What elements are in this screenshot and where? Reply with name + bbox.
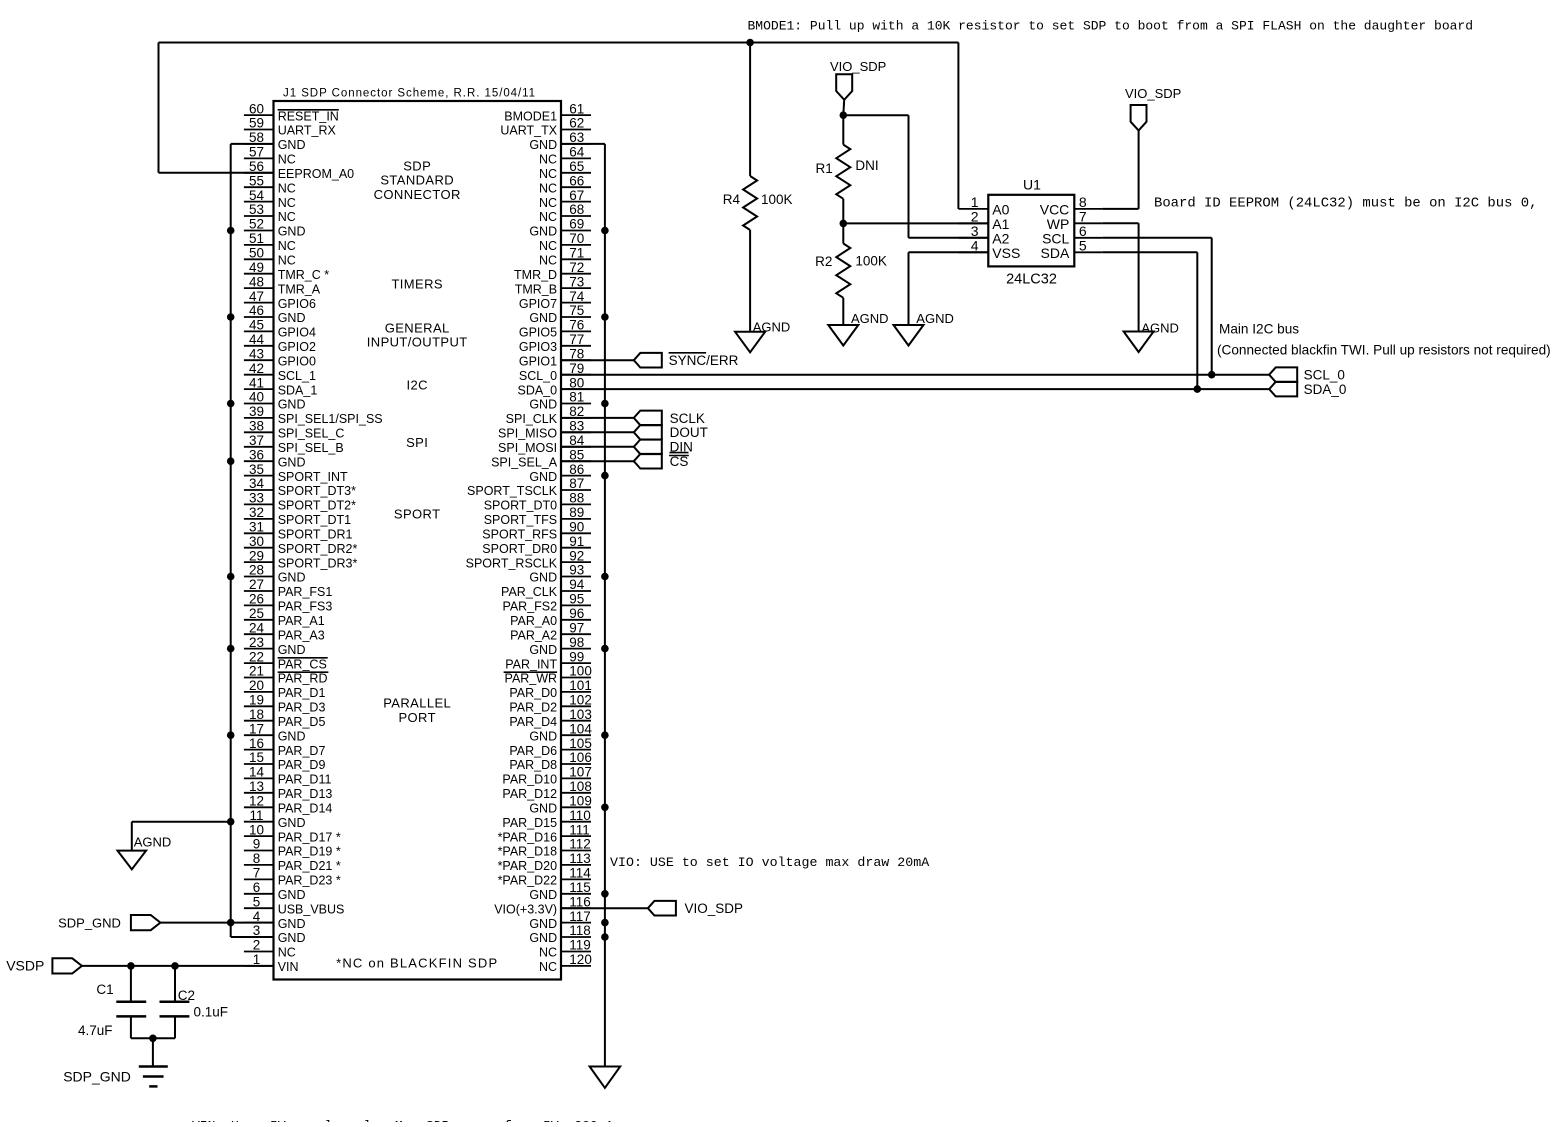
svg-text:NC: NC bbox=[278, 210, 296, 224]
label R1 bbox=[816, 161, 833, 176]
svg-text:NC: NC bbox=[539, 181, 557, 195]
J1 pin 6 GND bbox=[244, 880, 306, 902]
svg-text:43: 43 bbox=[249, 346, 264, 361]
svg-text:PAR_D7: PAR_D7 bbox=[278, 744, 326, 758]
J1 pin 100 PAR_WR bbox=[504, 664, 592, 686]
J1 pin 115 GND bbox=[529, 880, 591, 902]
svg-text:GND: GND bbox=[529, 225, 557, 239]
svg-text:67: 67 bbox=[569, 188, 584, 203]
note Connected blackfin TWI bbox=[1217, 343, 1551, 358]
svg-text:100K: 100K bbox=[761, 192, 793, 207]
junction: top net at R4 bbox=[746, 39, 754, 47]
svg-text:6: 6 bbox=[253, 880, 261, 895]
J1 pin 87 SPORT_TSCLK bbox=[467, 476, 591, 498]
svg-text:VIO_SDP: VIO_SDP bbox=[830, 59, 886, 74]
wire: EEPROM_A0 (pin 56) left and up to top net bbox=[159, 43, 274, 173]
J1 pin 24 PAR_A3 bbox=[244, 620, 325, 642]
svg-text:UART_RX: UART_RX bbox=[278, 124, 337, 138]
svg-text:11: 11 bbox=[249, 808, 263, 823]
svg-text:AGND: AGND bbox=[1141, 321, 1179, 336]
wire: VIO_SDP down to junction bbox=[842, 100, 845, 115]
svg-text:4: 4 bbox=[253, 909, 261, 924]
J1 pin 95 PAR_FS2 bbox=[502, 592, 591, 614]
svg-text:110: 110 bbox=[569, 808, 591, 823]
svg-text:GND: GND bbox=[529, 802, 557, 816]
J1 section label GENERAL bbox=[385, 320, 450, 335]
svg-text:108: 108 bbox=[569, 779, 592, 794]
svg-text:19: 19 bbox=[249, 693, 264, 708]
J1 pin 73 TMR_B bbox=[515, 274, 591, 296]
svg-text:GND: GND bbox=[278, 455, 306, 469]
svg-text:PAR_D10: PAR_D10 bbox=[502, 773, 557, 787]
J1 section label SPORT bbox=[394, 506, 441, 521]
J1 pin 117 GND bbox=[529, 909, 591, 931]
J1 pin 1 VIN bbox=[244, 952, 299, 974]
svg-text:NC: NC bbox=[539, 239, 557, 253]
J1 pin 4 GND bbox=[244, 909, 306, 931]
svg-text:106: 106 bbox=[569, 750, 592, 765]
svg-text:91: 91 bbox=[569, 534, 584, 549]
wire: VSDP to pin 1 VIN bbox=[82, 965, 274, 967]
port SYNC/ERR (SYNC overlined) bbox=[634, 353, 739, 368]
svg-text:PAR_A3: PAR_A3 bbox=[278, 628, 325, 642]
J1 pin 76 GPIO5 bbox=[519, 318, 591, 340]
J1 pin 25 PAR_A1 bbox=[244, 606, 325, 628]
svg-text:5: 5 bbox=[1079, 238, 1087, 254]
svg-text:GND: GND bbox=[278, 571, 306, 585]
svg-text:81: 81 bbox=[569, 390, 584, 405]
svg-text:STANDARD: STANDARD bbox=[380, 173, 454, 188]
svg-text:VSS: VSS bbox=[992, 245, 1020, 261]
junction: left bus at pin 36 bbox=[227, 457, 235, 465]
J1 pin 29 SPORT_DR3* bbox=[244, 548, 358, 570]
svg-text:SPI_SEL_A: SPI_SEL_A bbox=[491, 455, 558, 469]
svg-text:PAR_D12: PAR_D12 bbox=[502, 787, 557, 801]
svg-text:63: 63 bbox=[569, 130, 584, 145]
note VIN (clipped at bottom edge) bbox=[192, 1118, 645, 1127]
IC U1 24LC32 EEPROM body bbox=[988, 195, 1074, 267]
J1 pin 52 GND bbox=[244, 217, 306, 239]
svg-text:SDA: SDA bbox=[1041, 245, 1070, 261]
label R2 bbox=[815, 254, 832, 269]
svg-text:GPIO3: GPIO3 bbox=[519, 340, 557, 354]
junction: left bus at pin 52 bbox=[227, 227, 235, 235]
junction: left bus at pin 17 bbox=[227, 731, 235, 739]
svg-text:GND: GND bbox=[278, 729, 306, 743]
svg-text:60: 60 bbox=[249, 101, 264, 116]
junction: right bus at pin 93 bbox=[601, 573, 609, 581]
svg-text:118: 118 bbox=[569, 923, 591, 938]
junction: VIO_SDP / R1 / A2 branch bbox=[840, 111, 848, 119]
svg-text:18: 18 bbox=[249, 707, 264, 722]
svg-text:65: 65 bbox=[569, 159, 584, 174]
svg-text:SPI_SEL_B: SPI_SEL_B bbox=[278, 441, 344, 455]
power symbol VIO_SDP (above U1 VCC) bbox=[1125, 86, 1181, 131]
svg-text:VIO(+3.3V): VIO(+3.3V) bbox=[494, 902, 557, 916]
J1 pin 103 PAR_D4 bbox=[509, 707, 591, 729]
svg-text:GND: GND bbox=[529, 138, 557, 152]
svg-text:GND: GND bbox=[529, 917, 557, 931]
J1 pin 68 NC bbox=[539, 202, 591, 224]
U1 pin 6 SCL bbox=[1042, 223, 1102, 247]
svg-text:78: 78 bbox=[569, 346, 584, 361]
svg-text:PAR_RD: PAR_RD bbox=[278, 672, 328, 686]
svg-text:93: 93 bbox=[569, 563, 584, 578]
J1 pin 40 GND bbox=[244, 390, 306, 412]
J1 pin 94 PAR_CLK bbox=[501, 577, 591, 599]
J1 pin 36 GND bbox=[244, 447, 306, 469]
wire: pin 58 GND to left bus bbox=[231, 143, 274, 145]
svg-text:SPORT_DR1: SPORT_DR1 bbox=[278, 528, 353, 542]
svg-text:NC: NC bbox=[539, 946, 557, 960]
svg-text:SPORT_RFS: SPORT_RFS bbox=[482, 528, 557, 542]
port SCLK bbox=[634, 411, 705, 426]
svg-text:DOUT: DOUT bbox=[670, 425, 708, 440]
J1 pin 101 PAR_D0 bbox=[509, 678, 591, 700]
J1 pin 75 GND bbox=[529, 303, 591, 325]
ground AGND under U1 WP bbox=[1124, 321, 1179, 352]
label R4 bbox=[723, 192, 741, 207]
port SCL_0 bbox=[1269, 367, 1345, 382]
svg-text:VIN: Use +5V supply only. Ma: VIN: Use +5V supply only. Max SDP power … bbox=[192, 1118, 645, 1122]
svg-text:66: 66 bbox=[569, 173, 584, 188]
junction: right bus at pin 98 bbox=[601, 645, 609, 653]
svg-text:50: 50 bbox=[249, 246, 264, 261]
svg-text:117: 117 bbox=[569, 909, 591, 924]
svg-text:31: 31 bbox=[249, 520, 264, 535]
value 0.1uF (C2) bbox=[194, 1004, 229, 1019]
J1 pin 47 GPIO6 bbox=[244, 289, 316, 311]
svg-text:CS: CS bbox=[670, 454, 689, 469]
svg-text:AGND: AGND bbox=[134, 834, 172, 849]
U1 pin 1 A0 bbox=[958, 194, 1009, 218]
svg-text:16: 16 bbox=[249, 736, 264, 751]
wire: pin 84 to DIN port bbox=[561, 446, 634, 448]
svg-text:57: 57 bbox=[249, 145, 264, 160]
svg-text:GND: GND bbox=[278, 917, 306, 931]
J1 section label STANDARD bbox=[380, 173, 454, 188]
svg-text:29: 29 bbox=[249, 548, 264, 563]
junction: cap bottom node bbox=[149, 1035, 157, 1043]
J1 pin 112 *PAR_D18 bbox=[498, 837, 591, 859]
svg-text:PAR_INT: PAR_INT bbox=[505, 657, 557, 671]
wire: U1 WP to AGND bbox=[1102, 223, 1138, 331]
J1 section label SDP bbox=[403, 158, 431, 173]
svg-text:RESET_IN: RESET_IN bbox=[278, 109, 339, 123]
value 4.7uF (C1) bbox=[78, 1023, 113, 1038]
svg-text:GPIO0: GPIO0 bbox=[278, 354, 316, 368]
svg-text:89: 89 bbox=[569, 505, 584, 520]
J1 pin 55 NC bbox=[244, 173, 296, 195]
svg-text:24: 24 bbox=[249, 620, 265, 635]
J1 pin 39 SPI_SEL1/SPI_SS bbox=[244, 404, 383, 426]
svg-text:99: 99 bbox=[569, 649, 584, 664]
wire: C1/C2 bottoms joined bbox=[131, 1037, 175, 1039]
J1 pin 54 NC bbox=[244, 188, 296, 210]
svg-text:98: 98 bbox=[569, 635, 584, 650]
svg-text:SYNC/ERR: SYNC/ERR bbox=[669, 353, 739, 368]
svg-text:GND: GND bbox=[529, 888, 557, 902]
U1 pin 7 WP bbox=[1047, 209, 1103, 233]
ground SDP_GND (earth bars) bbox=[139, 1067, 168, 1087]
J1 pin 44 GPIO2 bbox=[244, 332, 316, 354]
J1 pin 90 SPORT_RFS bbox=[482, 520, 591, 542]
J1 pin 3 GND bbox=[244, 923, 306, 945]
J1 pin 86 GND bbox=[529, 462, 591, 484]
J1 pin 116 VIO(+3.3V) bbox=[494, 894, 591, 916]
svg-text:109: 109 bbox=[569, 794, 592, 809]
J1 pin 57 NC bbox=[244, 145, 296, 167]
svg-text:PAR_A2: PAR_A2 bbox=[510, 628, 557, 642]
J1 pin 34 SPORT_DT3* bbox=[244, 476, 356, 498]
wire: pin 83 to DOUT port bbox=[561, 431, 634, 433]
svg-text:37: 37 bbox=[249, 433, 264, 448]
J1 pin 15 PAR_D9 bbox=[244, 750, 326, 772]
svg-text:BMODE1: Pull up with a 10K res: BMODE1: Pull up with a 10K resistor to s… bbox=[748, 18, 1474, 33]
junction: left bus at pin 28 bbox=[227, 573, 235, 581]
svg-text:PAR_D23 *: PAR_D23 * bbox=[278, 874, 341, 888]
svg-text:58: 58 bbox=[249, 130, 264, 145]
svg-text:PAR_D21 *: PAR_D21 * bbox=[278, 859, 341, 873]
svg-text:VIO_SDP: VIO_SDP bbox=[685, 901, 744, 916]
junction: SDA_0 net bbox=[1194, 385, 1202, 393]
junction: right bus at pin 81 bbox=[601, 400, 609, 408]
svg-text:SPI: SPI bbox=[406, 435, 428, 450]
svg-text:GND: GND bbox=[278, 398, 306, 412]
svg-text:SPORT_DT1: SPORT_DT1 bbox=[278, 513, 351, 527]
svg-text:26: 26 bbox=[249, 592, 264, 607]
svg-text:Board ID EEPROM (24LC32) must: Board ID EEPROM (24LC32) must be on I2C … bbox=[1154, 195, 1537, 211]
svg-text:PAR_FS3: PAR_FS3 bbox=[278, 600, 333, 614]
svg-text:72: 72 bbox=[569, 260, 584, 275]
svg-text:GND: GND bbox=[529, 571, 557, 585]
J1 pin 82 SPI_CLK bbox=[506, 404, 591, 426]
svg-text:BMODE1: BMODE1 bbox=[504, 109, 557, 123]
J1 pin 77 GPIO3 bbox=[519, 332, 591, 354]
resistor R2 bbox=[836, 223, 850, 325]
svg-text:TMR_C *: TMR_C * bbox=[278, 268, 330, 282]
svg-text:PAR_D1: PAR_D1 bbox=[278, 686, 326, 700]
svg-text:42: 42 bbox=[249, 361, 264, 376]
svg-text:PAR_WR: PAR_WR bbox=[505, 672, 558, 686]
junction: right bus at pin 115 bbox=[601, 890, 609, 898]
svg-text:NC: NC bbox=[278, 946, 296, 960]
svg-text:NC: NC bbox=[278, 254, 296, 268]
svg-text:94: 94 bbox=[569, 577, 585, 592]
svg-text:21: 21 bbox=[249, 664, 264, 679]
junction: SCL_0 net bbox=[1208, 371, 1216, 379]
svg-text:28: 28 bbox=[249, 563, 264, 578]
port DOUT bbox=[634, 425, 708, 440]
svg-text:SPORT_DR0: SPORT_DR0 bbox=[482, 542, 557, 556]
svg-text:UART_TX: UART_TX bbox=[500, 124, 557, 138]
wire: top net down to R4 bbox=[749, 43, 751, 177]
svg-text:45: 45 bbox=[249, 318, 264, 333]
svg-text:76: 76 bbox=[569, 318, 584, 333]
svg-text:*NC on BLACKFIN SDP: *NC on BLACKFIN SDP bbox=[336, 955, 498, 970]
svg-text:112: 112 bbox=[569, 837, 591, 852]
junction: left bus at pin 40 bbox=[227, 400, 235, 408]
svg-text:SDP: SDP bbox=[403, 158, 431, 173]
J1 pin 81 GND bbox=[529, 390, 591, 412]
J1 pin 107 PAR_D10 bbox=[502, 765, 591, 787]
svg-text:SCLK: SCLK bbox=[670, 411, 705, 426]
capacitor C1 bbox=[116, 966, 146, 1038]
J1 pin 20 PAR_D1 bbox=[244, 678, 326, 700]
svg-text:119: 119 bbox=[569, 938, 591, 953]
svg-text:EEPROM_A0: EEPROM_A0 bbox=[278, 167, 354, 181]
svg-text:82: 82 bbox=[569, 404, 584, 419]
svg-text:87: 87 bbox=[569, 476, 584, 491]
J1 pin 59 UART_RX bbox=[244, 116, 337, 138]
svg-text:GND: GND bbox=[529, 398, 557, 412]
junction: right bus at pin 69 bbox=[601, 227, 609, 235]
svg-text:PAR_CLK: PAR_CLK bbox=[501, 585, 558, 599]
wire: SDP_GND port to pin 4 bbox=[160, 922, 273, 924]
svg-text:GENERAL: GENERAL bbox=[385, 320, 450, 335]
J1 pin 2 NC bbox=[244, 938, 296, 960]
ground AGND at bottom of right bus bbox=[590, 1067, 621, 1088]
svg-text:AGND: AGND bbox=[916, 311, 954, 326]
J1 pin 97 PAR_A2 bbox=[510, 620, 591, 642]
svg-text:69: 69 bbox=[569, 217, 584, 232]
svg-text:VIN: VIN bbox=[278, 960, 299, 974]
svg-text:INPUT/OUTPUT: INPUT/OUTPUT bbox=[367, 335, 468, 350]
svg-text:PAR_D2: PAR_D2 bbox=[509, 701, 557, 715]
J1 pin 58 GND bbox=[244, 130, 306, 152]
wire: pin 82 to SCLK port bbox=[561, 417, 634, 419]
J1 pin 41 SDA_1 bbox=[244, 375, 317, 397]
J1 note *NC on BLACKFIN SDP bbox=[336, 955, 498, 970]
svg-text:Main I2C bus: Main I2C bus bbox=[1219, 322, 1299, 337]
svg-text:52: 52 bbox=[249, 217, 264, 232]
svg-text:83: 83 bbox=[569, 419, 584, 434]
J1 pin 106 PAR_D8 bbox=[509, 750, 591, 772]
J1 pin 26 PAR_FS3 bbox=[244, 592, 332, 614]
J1 pin 120 NC bbox=[539, 952, 592, 974]
svg-text:R4: R4 bbox=[723, 192, 741, 207]
svg-text:*PAR_D16: *PAR_D16 bbox=[498, 830, 558, 844]
svg-text:NC: NC bbox=[539, 254, 557, 268]
wire: junction right then down to U1 A2 bbox=[843, 115, 988, 238]
J1 pin 30 SPORT_DR2* bbox=[244, 534, 358, 556]
wire: U1 VCC up to VIO_SDP bbox=[1102, 131, 1138, 209]
note Board ID EEPROM bbox=[1154, 195, 1537, 211]
svg-text:25: 25 bbox=[249, 606, 264, 621]
junction: R1/R2/A1 node bbox=[840, 220, 848, 228]
svg-text:PAR_D6: PAR_D6 bbox=[509, 744, 557, 758]
J1 pin 69 GND bbox=[529, 217, 591, 239]
svg-text:10: 10 bbox=[249, 822, 264, 837]
J1 pin 49 TMR_C * bbox=[244, 260, 329, 282]
svg-text:*PAR_D22: *PAR_D22 bbox=[498, 874, 558, 888]
J1 pin 5 USB_VBUS bbox=[244, 894, 345, 916]
svg-text:PAR_FS2: PAR_FS2 bbox=[502, 600, 557, 614]
J1 pin 111 *PAR_D16 bbox=[498, 822, 591, 844]
svg-text:73: 73 bbox=[569, 274, 584, 289]
svg-text:PAR_FS1: PAR_FS1 bbox=[278, 585, 333, 599]
junction: right bus at pin 104 bbox=[601, 731, 609, 739]
J1 pin 113 *PAR_D20 bbox=[498, 851, 591, 873]
svg-text:PAR_D15: PAR_D15 bbox=[502, 816, 557, 830]
junction: right bus at pin 118 bbox=[601, 933, 609, 941]
J1 pin 88 SPORT_DT0 bbox=[484, 491, 591, 513]
svg-text:32: 32 bbox=[249, 505, 264, 520]
svg-text:GND: GND bbox=[278, 888, 306, 902]
svg-text:R1: R1 bbox=[816, 161, 833, 176]
J1 pin 10 PAR_D17 * bbox=[244, 822, 341, 844]
svg-text:80: 80 bbox=[569, 375, 584, 390]
svg-text:GPIO2: GPIO2 bbox=[278, 340, 316, 354]
svg-text:C2: C2 bbox=[178, 988, 195, 1003]
svg-text:GND: GND bbox=[529, 643, 557, 657]
J1 pin 66 NC bbox=[539, 173, 591, 195]
svg-text:102: 102 bbox=[569, 693, 592, 708]
svg-text:116: 116 bbox=[569, 894, 591, 909]
svg-text:30: 30 bbox=[249, 534, 264, 549]
J1 pin 67 NC bbox=[539, 188, 591, 210]
J1 pin 13 PAR_D13 bbox=[244, 779, 333, 801]
svg-text:SPORT_TFS: SPORT_TFS bbox=[484, 513, 557, 527]
svg-text:SPI_CLK: SPI_CLK bbox=[506, 412, 558, 426]
svg-text:PARALLEL: PARALLEL bbox=[383, 696, 451, 711]
svg-text:SPORT_DR2*: SPORT_DR2* bbox=[278, 542, 358, 556]
J1 pin 12 PAR_D14 bbox=[244, 794, 333, 816]
J1 pin 37 SPI_SEL_B bbox=[244, 433, 344, 455]
junction: right bus at pin 109 bbox=[601, 804, 609, 812]
junction: left bus at pin 11 bbox=[227, 818, 235, 826]
J1 section label I2C bbox=[406, 377, 427, 392]
port VIO_SDP bbox=[648, 901, 743, 916]
wire: top net horizontal to U1 A0 bbox=[159, 43, 959, 209]
J1 pin 45 GPIO4 bbox=[244, 318, 316, 340]
svg-text:35: 35 bbox=[249, 462, 264, 477]
junction: VIN at C2 bbox=[171, 962, 179, 970]
svg-text:47: 47 bbox=[249, 289, 264, 304]
svg-text:101: 101 bbox=[569, 678, 592, 693]
svg-text:100: 100 bbox=[569, 664, 592, 679]
svg-text:79: 79 bbox=[569, 361, 584, 376]
wire: pin 78 GPIO1 to SYNC/ERR port bbox=[561, 359, 634, 361]
port SDA_0 bbox=[1269, 382, 1346, 397]
J1 pin 27 PAR_FS1 bbox=[244, 577, 332, 599]
svg-text:SPORT_RSCLK: SPORT_RSCLK bbox=[466, 556, 558, 570]
svg-text:SPORT_INT: SPORT_INT bbox=[278, 470, 348, 484]
svg-text:56: 56 bbox=[249, 159, 264, 174]
svg-text:NC: NC bbox=[539, 167, 557, 181]
ground AGND under R2 bbox=[828, 311, 888, 346]
svg-text:PAR_D17 *: PAR_D17 * bbox=[278, 830, 341, 844]
wire: right GND bus vertical bbox=[604, 144, 606, 1067]
svg-text:SDA_0: SDA_0 bbox=[1304, 382, 1347, 397]
svg-text:DNI: DNI bbox=[855, 158, 878, 173]
svg-text:NC: NC bbox=[278, 239, 296, 253]
J1 pin 14 PAR_D11 bbox=[244, 765, 332, 787]
svg-text:(Connected blackfin TWI. Pull: (Connected blackfin TWI. Pull up resisto… bbox=[1217, 343, 1551, 358]
wire: R4 to AGND bbox=[749, 230, 751, 332]
J1 pin 104 GND bbox=[529, 721, 592, 743]
J1 pin 72 TMR_D bbox=[514, 260, 591, 282]
wire: pin 3 GND to left bus bbox=[231, 936, 274, 938]
svg-text:PAR_D13: PAR_D13 bbox=[278, 787, 333, 801]
junction: left bus at pin 4 bbox=[227, 919, 235, 927]
svg-text:36: 36 bbox=[249, 447, 264, 462]
label SDP_GND (bottom) bbox=[63, 1069, 131, 1085]
J1 pin 48 TMR_A bbox=[244, 274, 321, 296]
J1 pin 32 SPORT_DT1 bbox=[244, 505, 351, 527]
J1 pin 28 GND bbox=[244, 563, 306, 585]
J1 pin 16 PAR_D7 bbox=[244, 736, 326, 758]
